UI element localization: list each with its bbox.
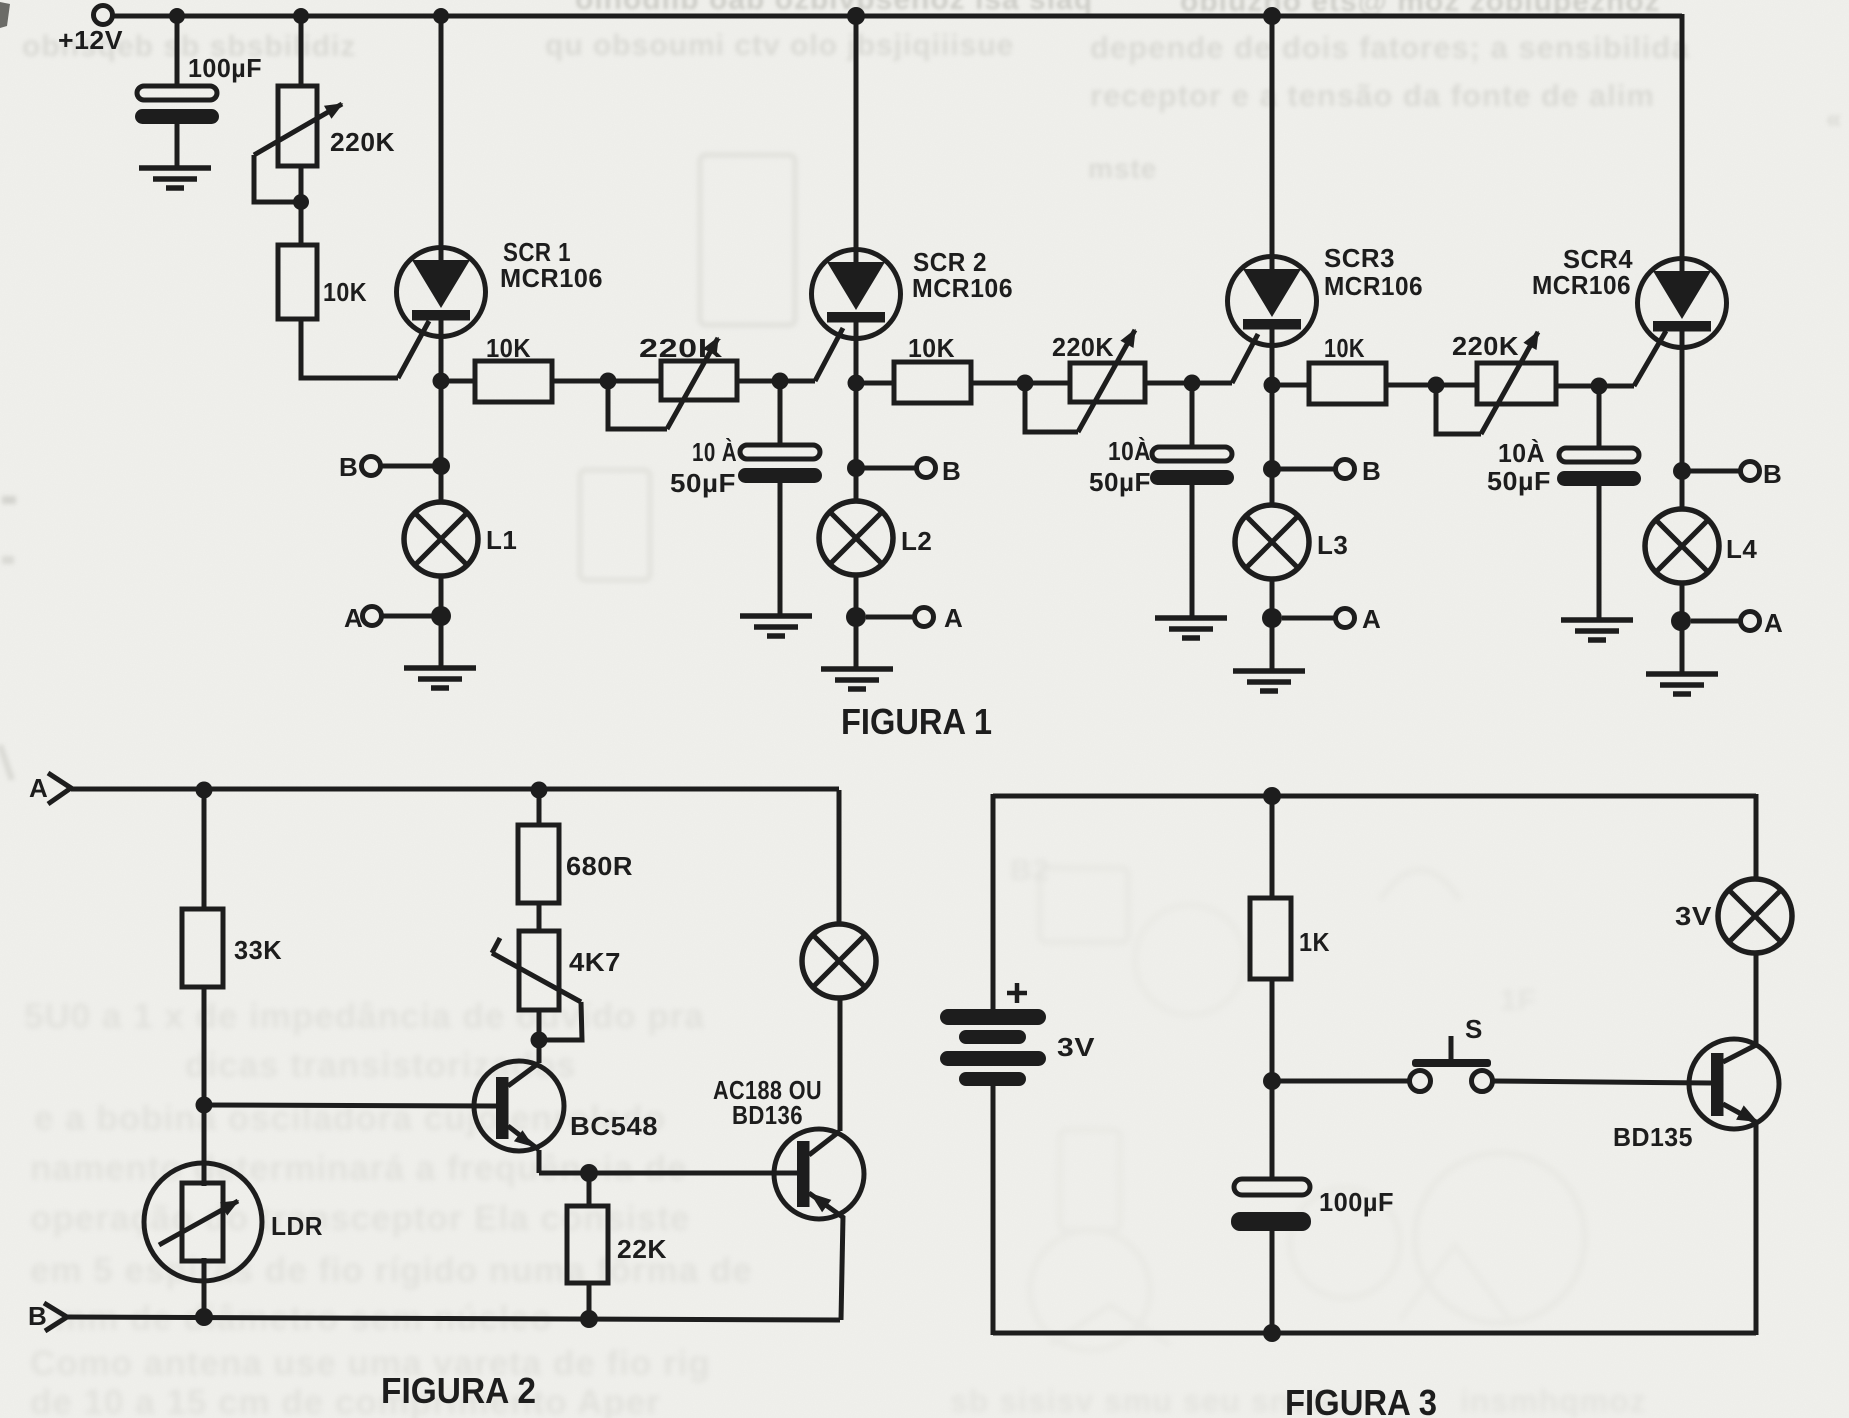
terminal A no1 [363, 607, 382, 626]
ground (50uF no4) [1561, 620, 1633, 640]
svg-text:+12V: +12V [58, 25, 123, 55]
wire 50uF no3 to ground [1190, 483, 1195, 617]
transistor Q3 emitter arrowhead [1736, 1105, 1758, 1122]
potentiometer 4K7 body [519, 931, 559, 1010]
terminal +12V [94, 6, 113, 25]
transistor Q1 emitter lead [508, 1126, 539, 1150]
junction 220K no3 left node [1017, 375, 1034, 392]
wire left edge lower [991, 1085, 996, 1335]
svg-text:22K: 22K [617, 1234, 667, 1264]
junction A no1 [431, 606, 451, 626]
svg-text:10K: 10K [486, 333, 531, 363]
terminal B no2 [917, 459, 936, 478]
svg-text:100µF: 100µF [188, 53, 262, 83]
svg-text:1F: 1F [1500, 984, 1537, 1017]
GHOSTS (page bleed-through, decorative) [0, 2, 10, 28]
ground (L3) [1233, 671, 1305, 691]
resistor 33K [182, 909, 223, 987]
svg-text:A: A [1362, 604, 1381, 634]
wire 10K no3 to 220K no3 [971, 381, 1070, 386]
transistor Q2 emitter arrowhead (PNP) [810, 1193, 831, 1212]
wire 220K no3 to SCR3 gate [1145, 381, 1232, 386]
wire SCR3 anode [1270, 16, 1275, 255]
resistor 10K no1 [278, 245, 317, 319]
wire 10K no2 to 220K no2 [552, 379, 661, 384]
wire to 10K no3 [856, 381, 894, 386]
wire to 680R [537, 790, 542, 825]
wire 220K no2 wiper return [608, 381, 667, 429]
junction 22K bottom [580, 1310, 598, 1328]
svg-text:1K: 1K [1299, 927, 1330, 957]
svg-text:MCR106: MCR106 [1324, 271, 1423, 301]
terminal A input [48, 773, 71, 804]
svg-text:50µF: 50µF [1487, 466, 1551, 496]
resistor 680R [518, 825, 559, 903]
svg-text:MCR106: MCR106 [1532, 270, 1631, 300]
svg-text:5U0 a 1 x de impedância de ouv: 5U0 a 1 x de impedância de ouvído pra [24, 997, 705, 1036]
wire left edge upper [991, 794, 996, 1010]
ground (L4) [1646, 674, 1718, 694]
ground (100uF) [139, 168, 211, 188]
junction on rail (SCR1 anode) [433, 8, 449, 24]
svg-text:33K: 33K [234, 935, 282, 965]
wire to 10K no2 [441, 379, 475, 384]
svg-text:FIGURA 3: FIGURA 3 [1285, 1382, 1437, 1418]
svg-text:220K: 220K [330, 127, 395, 157]
svg-text:L2: L2 [901, 526, 932, 556]
potentiometer 220K no3 body [1070, 363, 1145, 402]
wire L1 to A [439, 576, 444, 616]
resistor 1K [1250, 898, 1291, 979]
junction 220K no2 left node [600, 373, 617, 390]
junction base node [196, 1097, 213, 1114]
SCR3 MCR106 [1228, 254, 1317, 348]
junction SCR2 gate chain node [848, 375, 865, 392]
svg-text:10 À: 10 À [692, 437, 737, 467]
LDR body circle [144, 1163, 262, 1281]
potentiometer 220K no1 body [278, 86, 317, 166]
wire emitter to bottom right corner [1754, 1121, 1759, 1335]
lamp 3V fig3 [1718, 879, 1792, 953]
wire collector to lamp [838, 998, 843, 1131]
SCR1 MCR106 [397, 245, 486, 339]
LDR arrow [159, 1201, 238, 1245]
wire emitter to bottom rail [841, 1216, 843, 1320]
transistor Q2 emitter lead [809, 1193, 844, 1218]
svg-text:10K: 10K [323, 277, 367, 307]
transistor Q2 AC188/BD136 circle [774, 1129, 864, 1219]
wire L1 to ground [439, 616, 444, 667]
junction on rail (100uF) [169, 8, 185, 24]
svg-text:B: B [339, 452, 358, 482]
wire A no4 [1691, 619, 1740, 624]
wire A no1 [382, 614, 433, 619]
svg-text:«: « [1826, 103, 1843, 134]
terminal B no1 [362, 457, 381, 476]
wire to 100uF [1270, 1081, 1275, 1180]
svg-text:50µF: 50µF [1089, 467, 1151, 497]
wire bottom rail fig3 [993, 1331, 1756, 1336]
svg-text:Como antena use uma vareta de: Como antena use uma vareta de fio rig [30, 1344, 711, 1383]
wire SCR2 to L2 [854, 468, 859, 502]
wire L3 to A [1270, 579, 1275, 618]
junction A no4 [1671, 611, 1691, 631]
svg-text:FIGURA 1: FIGURA 1 [841, 701, 992, 742]
capacitor 50uF no4 [1557, 448, 1641, 486]
junction 33K top [196, 782, 213, 799]
wire SCR4 to L4 [1680, 471, 1685, 509]
lamp L2 [819, 501, 893, 575]
capacitor 100uF fig3 bottom plate [1231, 1212, 1311, 1231]
svg-text:B: B [28, 1301, 47, 1331]
wire 100uF branch [175, 16, 180, 87]
svg-text:4K7: 4K7 [569, 947, 621, 977]
wire SCR2 cathode [854, 341, 859, 468]
svg-text:100µF: 100µF [1319, 1187, 1394, 1217]
wire emitter rail [539, 1171, 797, 1176]
wire 10K no1 to SCR1 gate [301, 319, 398, 378]
svg-text:B: B [942, 456, 961, 486]
svg-text:50µF: 50µF [670, 468, 736, 498]
svg-text:SCR3: SCR3 [1324, 243, 1395, 273]
wire SCR4 cathode [1680, 350, 1685, 472]
wire base node to LDR [202, 1105, 207, 1186]
potentiometer 4K7 wiper tick [492, 938, 500, 953]
potentiometer 220K no3 arrow [1078, 330, 1135, 432]
svg-text:L1: L1 [486, 525, 517, 555]
junction 680R top [531, 782, 548, 799]
wire L2 to A [854, 575, 859, 617]
potentiometer 220K no4 body [1477, 363, 1556, 404]
wire 680R to 4K7 [537, 903, 542, 931]
wire 100uF to ground [175, 122, 180, 167]
wire A no3 [1282, 616, 1335, 621]
resistor 10K no3 [894, 362, 971, 403]
wire top rail fig3 [993, 794, 1756, 799]
wire 220K no3 wiper return [1025, 383, 1078, 432]
junction SCR3 gate chain node [1264, 377, 1281, 394]
svg-text:qu obsoumi ctv olo jbsjiqii: qu obsoumi ctv olo jbsjiqiiisue [545, 29, 1014, 62]
svg-text:S: S [1465, 1014, 1483, 1044]
wire L3 to ground [1270, 618, 1275, 670]
wire 22K to bottom rail [587, 1283, 592, 1320]
svg-text:insmhqmoz: insmhqmoz [1460, 1383, 1647, 1418]
wire SCR3 cathode [1270, 348, 1275, 470]
svg-text:depende de dois fatores; a sen: depende de dois fatores; a sensibilida [1090, 30, 1690, 65]
transistor Q2 base bar [797, 1141, 810, 1207]
ground (50uF no2) [740, 616, 812, 636]
wire SCR3 to L3 [1270, 469, 1275, 505]
junction 220K/10K node [293, 194, 309, 210]
capacitor C 100uF [135, 86, 219, 124]
junction bottom mid [1263, 1324, 1281, 1342]
svg-text:680R: 680R [566, 851, 633, 881]
svg-text:B: B [1362, 456, 1381, 486]
wire B no1 [381, 464, 433, 469]
junction on rail (SCR2 anode) [847, 7, 865, 25]
potentiometer 220K no1 arrow [254, 104, 342, 155]
transistor Q1 BC548 circle [474, 1061, 564, 1151]
wire B no2 [864, 466, 916, 471]
svg-text:L3: L3 [1317, 530, 1348, 560]
transistor Q3 collector lead [1723, 1045, 1756, 1062]
junction B no1 [432, 457, 450, 475]
svg-text:FIGURA 2: FIGURA 2 [381, 1370, 536, 1411]
junction 220K no4 left node [1428, 377, 1445, 394]
wire emitter down [537, 1150, 542, 1173]
terminal A no3 [1336, 609, 1355, 628]
transistor Q1 collector lead [508, 1063, 539, 1086]
capacitor 50uF no3 [1150, 447, 1234, 485]
wire SCR1 to L1 [439, 466, 444, 503]
transistor Q3 BD135 circle [1689, 1039, 1779, 1129]
svg-text:B: B [1763, 459, 1782, 489]
battery B1 3V plate long 2 [940, 1051, 1046, 1066]
svg-text:10K: 10K [908, 333, 955, 363]
transistor Q1 base bar [496, 1077, 509, 1139]
wire S to BD135 base [1493, 1081, 1711, 1083]
svg-text:A: A [944, 603, 963, 633]
wire 100uF to bottom rail [1270, 1231, 1275, 1333]
wire SCR2 anode [854, 16, 859, 248]
wire SCR1 gate lead [398, 321, 429, 378]
wire top rail fig2 [71, 787, 839, 792]
junction on rail (SCR3 anode) [1263, 7, 1281, 25]
wire LDR to bottom rail [202, 1258, 207, 1317]
wire 50uF no2 to ground [778, 481, 783, 615]
junction 50uF no3 node [1184, 375, 1201, 392]
wire to 33K [202, 790, 207, 909]
junction B no3 [1263, 460, 1281, 478]
wire to 22K [587, 1173, 592, 1206]
wire B no4 [1690, 469, 1740, 474]
transistor Q2 collector lead [809, 1131, 840, 1155]
ground (50uF no3) [1155, 618, 1227, 638]
wire SCR1 anode [439, 16, 444, 246]
junction 4K7/collector node [531, 1032, 548, 1049]
wire 10K no4 to 220K no4 [1386, 383, 1477, 388]
wire 50uF no4 to ground [1597, 484, 1602, 619]
resistor 10K no4 [1309, 363, 1386, 404]
potentiometer 220K no2 body [661, 361, 737, 400]
terminal A no4 [1741, 612, 1760, 631]
svg-text:A: A [344, 603, 363, 633]
junction B no4 [1673, 462, 1691, 480]
junction LDR bottom [195, 1308, 213, 1326]
junction 1K top [1263, 787, 1281, 805]
svg-text:10À: 10À [1108, 436, 1151, 466]
svg-text:de 10 a 15 cm de comprimento: de 10 a 15 cm de comprimento Aper [30, 1383, 661, 1418]
svg-text:LDR: LDR [271, 1211, 323, 1241]
svg-text:receptor e a tensão da fonte d: receptor e a tensão da fonte de alim [1090, 78, 1655, 113]
battery B1 3V plate long 1 [940, 1009, 1046, 1025]
wire to 10K no1 [299, 166, 304, 245]
wire B no3 [1280, 467, 1335, 472]
svg-text:10K: 10K [1324, 333, 1365, 363]
wire bottom rail fig2 [67, 1317, 840, 1320]
wire SCR3 gate lead [1232, 334, 1258, 383]
ground (L1) [404, 668, 476, 688]
terminal B input [44, 1303, 67, 1331]
wire lamp to top right corner [1754, 794, 1759, 880]
wire lamp to top rail [837, 790, 842, 924]
svg-text:MCR106: MCR106 [500, 263, 603, 293]
switch S contact right [1472, 1071, 1493, 1092]
ground (L2) [821, 669, 893, 689]
junction A no2 [846, 607, 866, 627]
terminal B no3 [1336, 460, 1355, 479]
battery B1 3V plate short 1 [959, 1030, 1026, 1044]
wire 220K no2 to SCR2 gate [737, 379, 815, 384]
wire SCR4 gate lead [1634, 331, 1666, 386]
terminal B no4 [1741, 462, 1760, 481]
wire L2 to ground [854, 617, 859, 668]
wire 33K to base node [202, 987, 207, 1105]
resistor 22K [567, 1206, 608, 1283]
battery plus sign [1007, 983, 1027, 1003]
switch S bar [1412, 1059, 1491, 1067]
svg-text:BD135: BD135 [1613, 1122, 1693, 1152]
junction 22K top node [580, 1164, 598, 1182]
svg-text:mste: mste [1088, 153, 1157, 184]
wire A no2 [866, 615, 914, 620]
SCR4 MCR106 [1638, 256, 1727, 350]
potentiometer 220K no4 arrow [1481, 332, 1538, 434]
wire L4 to A [1680, 583, 1685, 621]
battery B1 3V plate short 2 [959, 1072, 1026, 1086]
switch S contact left [1410, 1071, 1431, 1092]
svg-text:220K: 220K [1052, 332, 1114, 362]
switch S actuator [1449, 1036, 1454, 1059]
wire 50uF no3 branch [1190, 383, 1195, 448]
wire switch node to S [1272, 1079, 1409, 1084]
capacitor 50uF no2 [738, 445, 822, 483]
potentiometer 220K no2 arrow [667, 338, 718, 429]
junction 50uF no4 node [1591, 378, 1608, 395]
junction switch node [1263, 1072, 1281, 1090]
svg-text:BC548: BC548 [570, 1111, 658, 1141]
svg-text:220K: 220K [1452, 331, 1519, 361]
wire 1K to switch node [1270, 979, 1275, 1081]
wire +12V top supply rail [113, 14, 1682, 19]
junction B no2 [847, 459, 865, 477]
wire collector to lamp 3V [1754, 952, 1759, 1046]
junction on rail (220K) [293, 8, 309, 24]
wire SCR2 gate lead [815, 328, 843, 381]
capacitor 100uF fig3 top plate [1234, 1179, 1310, 1195]
wire 220K no4 wiper return [1436, 385, 1481, 434]
svg-text:A: A [29, 773, 48, 803]
wire SCR1 cathode [439, 339, 444, 467]
resistor 10K no2 [475, 361, 552, 402]
svg-text:B2: B2 [1010, 854, 1050, 887]
junction A no3 [1262, 608, 1282, 628]
wire 220K no1 wiper return [254, 155, 301, 202]
wire 4K7 wiper return [539, 1002, 582, 1040]
wire SCR4 anode [1680, 14, 1685, 257]
lamp fig2 [802, 924, 876, 998]
svg-text:3V: 3V [1057, 1032, 1095, 1062]
SCR2 MCR106 [812, 247, 901, 341]
svg-text:10À: 10À [1498, 438, 1545, 468]
junction SCR1 gate chain node [433, 373, 450, 390]
junction 50uF no2 node [772, 373, 789, 390]
transistor Q3 emitter lead [1723, 1104, 1756, 1122]
lamp L4 [1645, 509, 1719, 583]
transistor Q1 emitter arrowhead [514, 1130, 534, 1147]
svg-text:A: A [1764, 608, 1783, 638]
svg-text:3V: 3V [1675, 901, 1712, 931]
wire 50uF no2 branch [778, 381, 783, 446]
wire to 1K [1270, 796, 1275, 898]
wire base node to BC548 [204, 1105, 496, 1106]
terminal A no2 [915, 608, 934, 627]
transistor Q3 base bar [1711, 1053, 1724, 1116]
wire 220K no4 to SCR4 gate [1556, 384, 1634, 389]
lamp L1 [404, 502, 478, 576]
lamp L3 [1235, 505, 1309, 579]
svg-text:BD136: BD136 [732, 1100, 803, 1130]
wire 4K7 to collector [537, 1010, 542, 1063]
wire 220K no1 branch [299, 16, 304, 86]
LDR element [182, 1183, 223, 1261]
svg-text:L4: L4 [1726, 534, 1757, 564]
wire 50uF no4 branch [1597, 386, 1602, 449]
svg-text:MCR106: MCR106 [912, 273, 1013, 303]
wire L4 to ground [1680, 621, 1685, 672]
potentiometer 4K7 wiper [492, 953, 581, 1002]
wire to 10K no4 [1272, 383, 1309, 388]
